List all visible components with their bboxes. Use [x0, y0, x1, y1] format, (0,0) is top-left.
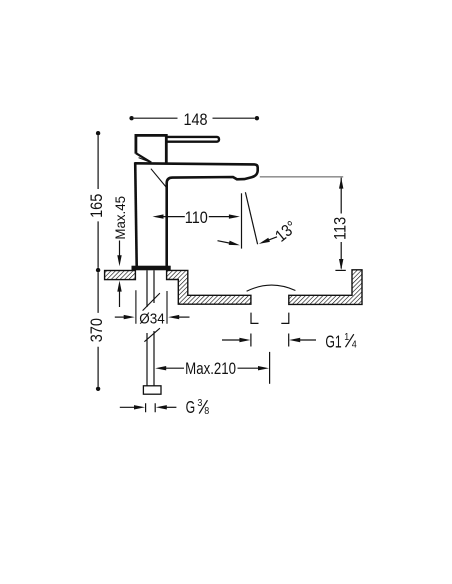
basin floor right + wall [289, 270, 362, 305]
spout tip extension line [260, 176, 343, 178]
spout outline [135, 163, 258, 266]
connection nut G3/8 [143, 386, 161, 394]
svg-text:370: 370 [88, 318, 106, 343]
dimension Max.45 upper arrow [119, 241, 121, 259]
dimension 370 [96, 387, 100, 391]
G1 1/4 left arrow [222, 339, 243, 341]
svg-text:Ø34: Ø34 [139, 311, 165, 328]
lever arm [166, 137, 219, 142]
label 110 [185, 209, 208, 227]
svg-text:113: 113 [332, 217, 350, 240]
G3/8 left arrow [120, 406, 138, 408]
svg-text:3: 3 [197, 397, 202, 409]
pipe break slash lower [144, 328, 160, 342]
svg-text:Max.45: Max.45 [113, 196, 128, 240]
label Max.210 [185, 360, 236, 379]
supply pipe lower [147, 331, 154, 386]
13deg leader arrow [269, 237, 278, 240]
svg-text:110: 110 [185, 209, 208, 227]
label G3/8 [186, 398, 196, 418]
drain bracket left [251, 313, 259, 324]
O34 left arrow [115, 316, 126, 318]
label 13deg [272, 218, 301, 246]
dimension 113 [340, 178, 342, 269]
dimension 148 [129, 116, 133, 120]
svg-text:4: 4 [352, 339, 357, 351]
label G1 1/4 [325, 332, 341, 352]
label 165 [88, 194, 106, 218]
G1 1/4 right arrow [298, 339, 317, 341]
dimension 110 [162, 216, 232, 218]
countertop step (right of faucet) [167, 270, 251, 304]
water arc over drain [247, 285, 296, 291]
G3/8 right arrow [163, 406, 176, 408]
svg-text:8: 8 [204, 406, 209, 418]
svg-text:G1: G1 [325, 332, 341, 352]
dimension Max.45 lower arrow [119, 290, 121, 307]
supply pipes upper [147, 270, 154, 307]
svg-text:165: 165 [88, 194, 106, 218]
aerator slant line 13deg [245, 192, 257, 244]
Max.210 right extension line [269, 352, 271, 384]
O34 right arrow [178, 316, 190, 318]
label 113 [332, 217, 350, 240]
label Max.45 [113, 196, 128, 240]
label 370 [88, 318, 106, 343]
faucet base plate [132, 266, 171, 271]
dimension G3/8 ticks [146, 403, 156, 412]
svg-text:1: 1 [344, 331, 349, 343]
svg-text:13°: 13° [272, 218, 301, 246]
aerator axis vertical line [241, 193, 243, 248]
dimension Max.210 [163, 367, 261, 369]
dimension G1 1/4 ticks [251, 334, 289, 347]
svg-text:G: G [186, 398, 196, 418]
dimension O34 extension lines [136, 290, 167, 324]
pipe break slash upper [143, 293, 160, 311]
drain bracket right [281, 313, 289, 324]
faucet body left edge [135, 162, 137, 266]
svg-text:Max.210: Max.210 [185, 360, 236, 379]
handle left tick [135, 147, 137, 151]
countertop left [105, 271, 136, 280]
label 148 [183, 111, 207, 129]
faucet handle block [136, 135, 166, 153]
angle arrow left [218, 241, 232, 244]
label O34 [139, 311, 165, 328]
svg-text:148: 148 [183, 111, 207, 129]
body inner diagonal [151, 169, 167, 188]
dimension 165 [96, 131, 100, 135]
handle inner diagonal [139, 158, 151, 163]
